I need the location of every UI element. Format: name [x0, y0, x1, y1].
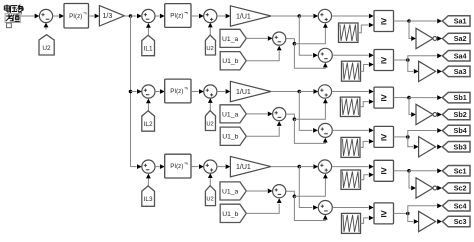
node: [407, 19, 411, 23]
arrow: [146, 99, 151, 104]
node: offset branch: [293, 42, 297, 46]
svg-text:1/U1: 1/U1: [236, 89, 251, 96]
svg-text:1/U1: 1/U1: [236, 164, 251, 171]
svg-text:≥: ≥: [381, 15, 387, 27]
goto tag Sa1: [442, 16, 470, 27]
goto tag Sb2: [442, 109, 470, 120]
wire: [437, 186, 442, 191]
arrow: [44, 23, 49, 28]
sum lower (+,-): [318, 201, 332, 215]
sum U1a-U1b (+,-): [273, 32, 286, 45]
goto tag Sa3: [442, 66, 470, 77]
svg-text:IL1: IL1: [144, 46, 153, 53]
wire: [437, 112, 442, 117]
svg-text:U1_b: U1_b: [222, 211, 238, 218]
svg-text:PI(z): PI(z): [170, 88, 183, 95]
arrow: [208, 173, 213, 178]
sum with IL3 (+,-): [142, 160, 155, 173]
node: [406, 135, 410, 139]
svg-text:Sb4: Sb4: [454, 126, 467, 135]
wire: [437, 69, 442, 74]
wire: [21, 14, 40, 19]
from tag U2: [205, 35, 215, 55]
wire: [299, 164, 318, 169]
arrow: [323, 174, 328, 179]
carrier generator (upper): [341, 170, 361, 189]
svg-text:IL3: IL3: [144, 196, 153, 203]
from tag U1_a: [220, 105, 246, 123]
wire to Sb4: [408, 128, 442, 137]
wire: [191, 164, 204, 169]
gain 1/U1: [230, 156, 271, 176]
arrow: [277, 198, 282, 203]
goto tag Sc3: [442, 216, 470, 227]
wire to buffer gate: [408, 60, 419, 74]
wire: [53, 14, 64, 19]
node: [407, 169, 411, 173]
sum with U2 (+,+): [204, 9, 217, 22]
relational operator >= (lower): [374, 50, 394, 71]
wire carrier to comparator: [361, 62, 374, 71]
sum U1a-U1b (+,-): [273, 185, 286, 198]
svg-text:U2: U2: [206, 46, 213, 52]
node: modulation branch: [298, 90, 302, 94]
goto tag Sa4: [442, 51, 470, 62]
wire: [246, 51, 279, 61]
wire to lower sum: [299, 16, 318, 58]
PI controller (row 3): [165, 154, 191, 178]
wire offset branch: [286, 191, 295, 196]
PI controller PI1: [64, 4, 89, 29]
svg-text:Sa1: Sa1: [454, 17, 467, 26]
svg-text:≥: ≥: [381, 92, 387, 104]
PI controller (row 2): [165, 79, 191, 103]
wire: [131, 164, 142, 169]
wire: [299, 89, 318, 94]
wire to lower sum bottom: [294, 196, 325, 220]
wire: [246, 204, 279, 214]
wire to NOT gate: [409, 171, 416, 191]
wire: [155, 14, 165, 19]
svg-text:U2: U2: [42, 45, 51, 52]
wire: [246, 111, 272, 116]
buffer gate: [419, 211, 436, 231]
svg-text:Sb3: Sb3: [454, 142, 467, 151]
arrow: [277, 46, 282, 51]
goto tag Sc2: [442, 183, 470, 194]
relational operator >= (upper): [374, 87, 394, 108]
wire to lower sum: [299, 92, 318, 133]
svg-text:U1_a: U1_a: [222, 36, 238, 43]
carrier generator (lower): [342, 213, 361, 233]
wire carrier to comparator: [361, 172, 374, 179]
wire: [394, 59, 408, 61]
wire: [332, 14, 374, 19]
svg-text:Sc4: Sc4: [454, 201, 467, 210]
wire: [271, 91, 299, 93]
svg-text:1/3: 1/3: [103, 13, 113, 20]
relational operator >= (lower): [374, 203, 394, 224]
from tag IL1: [142, 35, 155, 55]
wire: [45, 23, 47, 29]
relational operator >= (upper): [374, 11, 394, 32]
node: offset branch: [293, 117, 297, 121]
wire to upper sum bottom: [294, 28, 325, 44]
wire: [246, 36, 272, 41]
NOT gate: [416, 104, 437, 124]
svg-text:Sb1: Sb1: [454, 93, 467, 102]
sum lower (+,-): [318, 123, 332, 137]
wire: [147, 103, 149, 110]
carrier generator (lower): [342, 61, 361, 81]
svg-text:≥: ≥: [381, 54, 387, 66]
gain 1/U1: [230, 81, 271, 101]
node: [407, 96, 411, 100]
from tag U1_a: [220, 182, 246, 200]
wire to upper sum bottom: [294, 103, 325, 119]
wire: [409, 19, 442, 24]
svg-text:Sc1: Sc1: [454, 166, 467, 175]
wire: [332, 53, 373, 58]
PI controller (row 1): [165, 4, 191, 28]
from tag U1_a: [220, 29, 246, 47]
svg-text:U1_a: U1_a: [222, 111, 238, 118]
wire: [131, 14, 142, 19]
carrier generator (upper): [340, 97, 360, 116]
svg-text:≥: ≥: [381, 208, 387, 220]
wire: [332, 128, 373, 133]
goto tag Sc4: [442, 201, 470, 212]
svg-text:1/U1: 1/U1: [236, 13, 251, 20]
arrow: [323, 99, 328, 104]
gain 1/3: [99, 6, 124, 26]
node: [406, 58, 410, 62]
node: modulation branch: [298, 165, 302, 169]
wire: [155, 164, 165, 169]
wire to buffer gate: [408, 137, 419, 149]
NOT gate: [416, 28, 437, 48]
carrier generator (lower): [341, 137, 360, 157]
wire: [155, 89, 165, 94]
wire carrier to comparator: [361, 216, 374, 224]
wire: [332, 89, 374, 94]
wire: [437, 144, 442, 149]
svg-text:IL2: IL2: [144, 121, 153, 128]
wire offset branch: [286, 39, 295, 44]
wire carrier to comparator: [360, 139, 374, 147]
trunk wire down: [130, 16, 132, 167]
from tag U1_b: [220, 127, 246, 145]
label: voltage reference (Chinese) constant block: [4, 5, 24, 28]
sum upper (+,+): [318, 9, 331, 22]
node: branch row2: [129, 90, 133, 94]
svg-text:Sa4: Sa4: [454, 51, 467, 60]
wire: [394, 212, 408, 214]
arrow: [323, 63, 328, 68]
from tag U2: [205, 186, 215, 206]
wire: [394, 170, 410, 172]
node: offset branch: [293, 195, 297, 199]
buffer gate: [419, 137, 436, 157]
node: branch after 1/3: [129, 14, 133, 18]
wire: [217, 164, 231, 169]
wire: [299, 14, 318, 19]
wire carrier to comparator: [358, 23, 374, 33]
wire: [394, 136, 408, 138]
NOT gate: [416, 178, 437, 198]
sum upper (+,+): [318, 85, 331, 98]
wire: [271, 166, 299, 168]
arrow: [323, 215, 328, 220]
wire: [89, 14, 100, 19]
svg-text:≥: ≥: [381, 165, 387, 177]
wire: [246, 127, 279, 137]
wire: [409, 168, 442, 173]
arrow: [208, 23, 213, 28]
goto tag Sb1: [442, 92, 470, 103]
svg-text:Sc3: Sc3: [454, 217, 467, 226]
arrow: [146, 23, 151, 28]
wire: [209, 28, 211, 36]
wire to lower sum bottom: [294, 44, 325, 69]
wire to lower sum bottom: [294, 119, 325, 143]
relational operator >= (lower): [374, 126, 394, 147]
wire to Sa4: [408, 53, 442, 60]
svg-text:PI(z): PI(z): [170, 163, 183, 170]
wire offset branch: [286, 114, 295, 119]
wire: [191, 14, 204, 19]
svg-text:Sa3: Sa3: [454, 67, 467, 76]
svg-text:U2: U2: [206, 122, 213, 128]
wire: [394, 20, 410, 22]
wire: [394, 97, 410, 99]
wire to NOT gate: [409, 98, 416, 117]
sum with IL1 (+,-): [142, 9, 155, 22]
wire to Sc4: [408, 203, 442, 213]
wire: [191, 89, 204, 94]
goto tag Sa2: [442, 33, 470, 44]
wire: [332, 205, 373, 210]
svg-text:U1_b: U1_b: [222, 58, 238, 65]
arrow: [277, 121, 282, 126]
svg-text:U2: U2: [206, 197, 213, 203]
node: [406, 212, 410, 216]
arrow: [146, 174, 151, 179]
svg-text:PI(z): PI(z): [170, 13, 183, 20]
wire: [437, 219, 442, 224]
sum with U2 (+,+): [204, 85, 217, 98]
wire to buffer gate: [408, 213, 419, 224]
from tag U1_b: [220, 204, 246, 222]
wire: [124, 15, 130, 17]
wire: [209, 103, 211, 111]
sum S1 (+,-): [39, 9, 52, 22]
from tag U1_b: [220, 52, 246, 70]
arrow: [323, 23, 328, 28]
svg-text:U1_b: U1_b: [222, 134, 238, 141]
wire: [147, 28, 149, 35]
svg-text:Sb2: Sb2: [454, 110, 467, 119]
from tag IL3: [142, 186, 155, 206]
svg-text:U1_a: U1_a: [222, 188, 238, 195]
wire to upper sum bottom: [294, 178, 325, 196]
sum with IL2 (+,-): [142, 85, 155, 98]
wire: [409, 95, 442, 100]
buffer gate: [419, 61, 436, 81]
wire: [437, 36, 442, 41]
goto tag Sb4: [442, 125, 470, 136]
wire: [217, 14, 231, 19]
from tag IL2: [142, 111, 155, 131]
wire: [147, 178, 149, 185]
from tag U2: [39, 35, 54, 55]
gain 1/U1: [230, 6, 271, 26]
sum U1a-U1b (+,-): [273, 108, 286, 121]
wire to NOT gate: [409, 21, 416, 41]
node: modulation branch: [298, 14, 302, 18]
goto tag Sb3: [442, 142, 470, 153]
wire: [131, 89, 142, 94]
arrow: [208, 98, 213, 103]
sum with U2 (+,+): [204, 160, 217, 173]
svg-text:PI(z): PI(z): [69, 13, 82, 20]
wire carrier to comparator: [360, 99, 374, 107]
from tag U2: [205, 111, 215, 131]
sum upper (+,+): [318, 160, 331, 173]
arrow: [323, 138, 328, 143]
wire: [271, 15, 299, 17]
relational operator >= (upper): [374, 160, 394, 181]
svg-text:Sc2: Sc2: [454, 184, 467, 193]
wire: [217, 89, 231, 94]
svg-text:≥: ≥: [381, 131, 387, 143]
wire: [246, 189, 272, 194]
goto tag Sc1: [442, 166, 470, 177]
wire: [332, 164, 374, 169]
sum lower (+,-): [318, 48, 332, 62]
wire to lower sum: [299, 167, 318, 210]
svg-text:Sa2: Sa2: [454, 34, 467, 43]
wire: [209, 178, 211, 186]
carrier generator (upper): [339, 23, 359, 42]
